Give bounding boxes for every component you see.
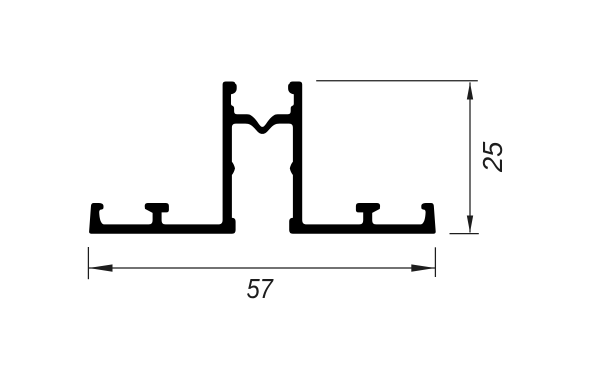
dim 57 extension line right xyxy=(434,247,436,277)
svg-text:57: 57 xyxy=(246,273,274,304)
dim 25 arrow top xyxy=(467,83,473,100)
svg-text:25: 25 xyxy=(477,141,508,173)
dim 57 arrow left xyxy=(89,264,113,271)
dim 25 extension line top xyxy=(316,80,478,82)
dim 57 line xyxy=(88,267,435,269)
dim 57 extension line left xyxy=(87,247,89,279)
dim 25 arrow bottom xyxy=(467,216,473,233)
dim 25 extension line bottom xyxy=(450,233,479,235)
dim 57 arrow right xyxy=(411,264,435,271)
dim 25 line xyxy=(469,82,471,232)
aluminium profile cross-section xyxy=(89,82,436,234)
